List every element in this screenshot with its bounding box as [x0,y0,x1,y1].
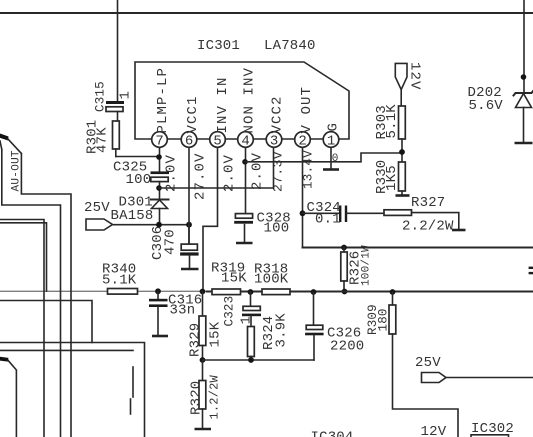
label R326 100/1W [348,245,373,286]
ground below R327 [452,229,466,232]
pin label NON INV [242,67,258,134]
svg-text:47K: 47K [95,127,111,153]
wire left lower feeder [0,301,92,343]
pin 2 circle [295,132,311,150]
svg-text:5.1K: 5.1K [384,104,400,139]
svg-text:180: 180 [377,308,391,331]
ground below R320 [195,428,212,431]
svg-text:NON INV: NON INV [242,67,258,134]
resistor R330 [399,162,406,195]
pin label VCC1 [185,95,201,133]
IC301 LA7840 title [197,38,316,54]
svg-text:2.0V: 2.0V [222,154,238,192]
resistor R329 [199,292,206,361]
svg-text:PLMP-LP: PLMP-LP [155,67,171,134]
svg-text:1: 1 [239,316,255,325]
pin label VCC2 [270,95,286,133]
svg-text:15K: 15K [221,271,247,287]
wire pin5 down with jog [203,147,218,291]
label R330 1K5 [374,160,400,194]
svg-text:1K5: 1K5 [384,165,400,191]
svg-text:2.0V: 2.0V [250,152,266,190]
wire lower junction rail [203,359,315,361]
pin label PLMP-LP [155,67,171,134]
svg-text:LA7840: LA7840 [264,38,316,54]
resistor R319 [212,289,241,295]
label R324 3.9K [261,313,290,350]
wire pin7 down [159,147,161,172]
resistor R326 [341,248,348,295]
svg-text:0: 0 [332,153,339,165]
svg-text:100: 100 [126,172,152,188]
svg-text:R320: R320 [189,381,205,415]
resistor R303 [399,106,406,162]
capacitor C316 [149,291,168,335]
node R329 bottom junction [200,357,206,363]
IC304 block thick stroke and diagonal [0,357,16,437]
label R309 180 [366,304,391,335]
label C328 100 [257,211,291,237]
svg-text:25V: 25V [84,200,110,216]
svg-text:2200: 2200 [330,339,364,355]
wire vertical right D202 feed [523,0,525,93]
pin 5 circle [210,132,226,150]
capacitor C315 [106,101,124,121]
label D301 BA158 [111,195,154,225]
svg-text:0.1: 0.1 [315,212,341,228]
pin 4 circle [238,132,254,150]
label R327 2.2/2W [402,195,454,235]
resistor R318 [262,289,290,295]
svg-text:INV IN: INV IN [215,76,231,133]
label R340 5.1K [102,262,137,289]
label C315 value 1 [94,81,134,112]
IC304 label [311,430,354,437]
resistor R324 [248,327,255,361]
pin 3 circle [266,132,282,150]
pin label G [326,122,342,132]
wire left feeder 3 [0,220,44,437]
svg-text:12V: 12V [421,424,447,437]
resistor R327 [384,210,459,230]
wire main feedback bus black right [207,291,533,293]
ground below R330 [396,194,410,197]
resistor R320 [199,360,206,429]
svg-text:IC304: IC304 [311,430,354,437]
ground below C306 [181,268,199,271]
label R319 15K [211,261,247,287]
voltage 27.3V pin3 [271,151,286,192]
svg-text:13.4V: 13.4V [302,150,316,189]
svg-text:100: 100 [264,221,290,237]
svg-text:C323: C323 [223,296,237,327]
svg-text:C315: C315 [94,81,108,112]
node C323/R318 junction [248,289,254,295]
node C325 bottom junction [156,185,162,191]
svg-text:100K: 100K [254,272,289,288]
label C326 2200 [327,326,364,355]
power flag 25V right [415,355,533,383]
svg-text:12V: 12V [407,62,423,91]
label R318 100K [254,262,289,288]
label C325 100 [113,160,151,189]
label AU-OUT [11,150,23,192]
pin 6 circle [181,132,197,150]
node R303/R330 junction [399,149,405,155]
svg-text:27.0V: 27.0V [193,152,209,200]
pin label INV IN [215,76,231,133]
op-amp U IC301 body outline [135,62,349,139]
wire top horizontal bus [0,12,533,14]
resistor R309 [389,292,458,437]
node junction dot on D202 feed [521,74,527,80]
svg-text:1: 1 [118,91,134,100]
svg-text:1.2/2W: 1.2/2W [208,374,222,419]
node R326 top [341,245,347,251]
svg-text:5.6V: 5.6V [469,98,504,114]
resistor R301 [113,121,160,157]
svg-text:VCC2: VCC2 [270,95,286,133]
wire pin4 down [245,147,247,213]
IC302 label and box [471,421,514,437]
node C326 top junction [311,289,317,295]
label R329 15K [188,321,224,357]
svg-text:5.1K: 5.1K [102,273,137,289]
label R303 5.1K [374,104,400,140]
svg-text:IC301: IC301 [197,38,240,54]
voltage 2.0V pin4 [250,152,266,190]
wire pin7 node to pin3 [159,187,274,189]
label R301 47K [85,120,111,154]
node R324 bottom junction [248,357,254,363]
svg-text:3.9K: 3.9K [274,313,290,348]
node pin4 junction [242,159,248,165]
node D301 anode on 25V rail [156,222,162,228]
voltage 2.0V pin7 [164,154,180,192]
wire pin1 ground [323,147,339,169]
wire vertical drop to C315 [117,0,119,101]
voltage 27.0V pin6 [193,152,209,200]
capacitor C323 [242,292,261,327]
svg-text:25V: 25V [415,355,441,371]
wire pin2 down [302,147,304,247]
ground below C316 [152,335,168,338]
node R309 top junction [390,289,396,295]
capacitor C325 [151,171,170,199]
wire 25V rail [113,224,190,226]
node pin7/R301 junction [156,154,162,160]
ground below C328 [236,242,253,245]
node pin2 C324 junction [300,210,306,216]
wire pin3 down [273,147,275,188]
AU-OUT connector arrow [0,134,21,154]
svg-text:V OUT: V OUT [299,86,315,134]
capacitor C328 [234,214,253,243]
label C323 value 1 [223,296,255,327]
label D202 5.6V [468,85,504,114]
voltage 2.0V pin5 [222,154,238,192]
wire to C324 [303,212,340,214]
capacitor C324 [339,206,384,223]
pin 7 circle [152,132,168,150]
capacitor C326 [305,292,324,360]
wire AU-OUT left side [2,150,61,437]
wire pin6 down [188,147,190,244]
svg-text:2.2/2W: 2.2/2W [402,219,454,235]
svg-text:100/1W: 100/1W [361,245,373,286]
label C316 33n [168,293,202,319]
svg-text:BA158: BA158 [111,208,154,224]
capacitor C306 [180,225,199,269]
wire V OUT horizontal [303,247,533,249]
label C306 470 [150,226,179,260]
capacitor clipped at right edge [529,267,533,275]
ground below D202 [515,142,533,145]
IC304 block inner top line [0,349,133,351]
pin label V OUT [299,86,315,134]
svg-text:VCC1: VCC1 [185,95,201,133]
label 12V bottom [421,424,447,437]
wire left feeder 4 [0,223,47,291]
node R329 top junction [200,289,206,295]
resistor R340 [108,289,138,295]
power flag 12V top [395,62,422,106]
pin 1 circle [323,132,339,150]
svg-text:33n: 33n [170,303,196,319]
wire AU-OUT right side [21,154,71,437]
voltage 0 pin1 [332,153,339,165]
label R320 1.2/2W [189,374,222,419]
node pin6 on 25V rail [186,222,192,228]
zener diode D202 [514,91,533,143]
wire main feedback bus gray left [0,290,207,292]
voltage 13.4V pin2 [302,150,316,189]
svg-text:15K: 15K [208,321,224,347]
node C316 junction [155,288,161,294]
power flag 25V left [84,200,113,230]
svg-text:470: 470 [163,229,179,255]
svg-text:R329: R329 [188,323,204,357]
wire pin4 to R303/R330 node [245,153,402,162]
svg-text:G: G [326,122,342,132]
IC304 block inner vertical segments [131,367,134,414]
diode D301 [151,200,169,226]
svg-text:R327: R327 [411,195,445,211]
label C324 0.1 [307,200,341,228]
IC304 block outline [0,343,145,437]
